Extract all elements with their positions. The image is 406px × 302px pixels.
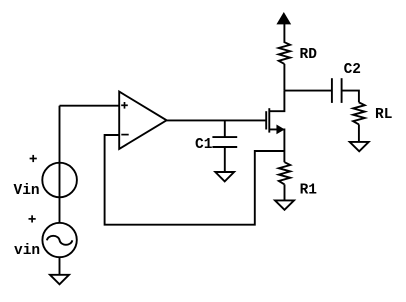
op-amp U1 [119, 92, 166, 149]
ground below R1 [275, 200, 294, 209]
svg-text:C2: C2 [344, 62, 361, 78]
wire vertical source chain [59, 106, 61, 223]
resistor R1 [279, 162, 290, 184]
capacitor C2 [332, 78, 342, 103]
wire C2 to RL [342, 91, 359, 103]
svg-text:C1: C1 [195, 137, 213, 153]
resistor RD [279, 23, 290, 64]
wire RD to drain node [283, 64, 285, 91]
wire op-amp output to gate [167, 119, 267, 121]
transistor M1 NMOS [266, 91, 284, 163]
svg-text:RL: RL [375, 107, 392, 123]
wire feedback path [105, 135, 285, 225]
resistor RL [353, 102, 365, 124]
wire R1 to ground [284, 184, 286, 200]
svg-text:vin: vin [14, 243, 40, 259]
capacitor C1 [212, 120, 237, 172]
ground below C1 [215, 172, 234, 181]
plus polarity mark for vin [29, 215, 36, 222]
supply arrow VDD [278, 14, 289, 24]
voltage source vin (AC) [42, 223, 76, 257]
svg-text:RD: RD [300, 47, 318, 63]
wire RL to ground [358, 124, 360, 141]
wire drain node to C2 [284, 90, 332, 92]
ground below vin [50, 275, 69, 285]
plus polarity mark for Vin [30, 155, 37, 162]
wire top horizontal to op-amp plus input [60, 105, 120, 107]
svg-text:R1: R1 [300, 183, 318, 199]
voltage source Vin [42, 163, 77, 198]
wire vin to ground [59, 257, 61, 275]
svg-text:Vin: Vin [14, 183, 40, 199]
ground below RL [350, 142, 369, 151]
